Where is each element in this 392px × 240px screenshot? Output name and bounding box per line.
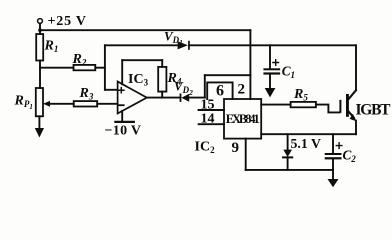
- wire R5 to gate: [316, 105, 340, 113]
- capacitor C1: [263, 68, 280, 70]
- potentiometer RP1: [36, 88, 43, 116]
- pin 14 lead: [199, 123, 224, 125]
- wire VD1 rail right: [190, 44, 356, 46]
- resistor R2: [74, 65, 96, 70]
- wire left rail to R1: [39, 30, 41, 34]
- svg-text:IGBT: IGBT: [356, 101, 392, 118]
- wire branch to R2: [40, 67, 74, 69]
- svg-text:+25 V: +25 V: [48, 14, 87, 29]
- wire C2 to rail: [332, 159, 334, 170]
- svg-text:R3: R3: [79, 86, 94, 102]
- op-amp IC3: [118, 82, 147, 114]
- wire R4 top stub: [161, 60, 163, 67]
- wire R2 to +node: [95, 67, 105, 69]
- capacitor C2 stub: [332, 134, 334, 153]
- wire pin2 vertical: [249, 30, 251, 99]
- svg-text:2: 2: [238, 82, 246, 98]
- svg-text:R2: R2: [72, 52, 87, 68]
- wire wiper to R3: [48, 103, 74, 105]
- wire terminal to rail: [39, 23, 41, 30]
- wire op-amp output: [147, 97, 180, 99]
- wiper arrow of RP1: [43, 101, 50, 107]
- IGBT collector: [348, 90, 356, 100]
- wire R4 bottom stub: [161, 92, 163, 98]
- svg-text:EXB841: EXB841: [226, 112, 260, 126]
- ground: [35, 128, 44, 138]
- wire R1 to RP1: [39, 61, 41, 89]
- wire VD1 rail left: [105, 44, 178, 46]
- wire chip to R5: [261, 104, 290, 106]
- node junction dot: [38, 28, 42, 32]
- svg-text:14: 14: [201, 112, 215, 127]
- resistor R5: [291, 102, 316, 107]
- svg-text:15: 15: [201, 97, 215, 112]
- zener stub: [287, 134, 289, 149]
- ground: [265, 88, 276, 97]
- C1 plus sign: [273, 60, 279, 66]
- capacitor C2: [325, 153, 342, 155]
- IGBT gate bar: [339, 100, 341, 113]
- svg-text:5.1 V: 5.1 V: [291, 136, 321, 151]
- IGBT body bar: [346, 94, 349, 117]
- wire to pin2: [205, 74, 251, 76]
- C2 plus sign: [336, 143, 342, 149]
- svg-text:IC2: IC2: [195, 140, 216, 156]
- svg-text:C2: C2: [343, 148, 357, 165]
- capacitor C1 stub: [269, 45, 271, 68]
- IGBT emitter: [349, 112, 354, 118]
- wire emitter rail to chip: [261, 133, 356, 135]
- resistor R4: [158, 67, 166, 92]
- svg-text:6: 6: [216, 83, 224, 100]
- +25V terminal: [38, 19, 43, 24]
- diode VD1: [178, 41, 188, 49]
- svg-text:RP1: RP1: [14, 93, 33, 111]
- minus input marker: [119, 104, 124, 106]
- ground stub: [332, 170, 334, 179]
- resistor R3: [74, 101, 98, 106]
- wire C1 to ground: [269, 75, 271, 88]
- pin 6 tab box: [207, 82, 232, 99]
- wire into + input: [105, 89, 118, 91]
- svg-text:VD2: VD2: [174, 79, 193, 98]
- IC EXB841 body: [224, 99, 261, 139]
- svg-text:R1: R1: [44, 39, 59, 55]
- wire negative supply stub: [121, 111, 123, 122]
- svg-text:9: 9: [232, 140, 240, 156]
- plus input marker: [119, 88, 124, 93]
- wire R3 to - input: [97, 103, 117, 105]
- wire bottom rail: [246, 169, 333, 171]
- resistor R1: [36, 34, 43, 61]
- negative supply bar: [115, 121, 133, 123]
- wire VD2 to corner: [189, 97, 205, 99]
- wire top +25V rail: [40, 29, 250, 31]
- wire RP1 to ground: [38, 116, 40, 128]
- svg-text:−10 V: −10 V: [105, 124, 142, 139]
- wire R4 feedback top: [122, 59, 162, 61]
- pin 9 lead: [245, 139, 247, 170]
- diode VD2: [180, 94, 182, 102]
- svg-text:IC3: IC3: [128, 72, 149, 88]
- wire + input vertical node: [104, 45, 106, 90]
- ground: [328, 179, 339, 187]
- wire corner up: [204, 75, 206, 97]
- wire collector drop: [355, 45, 357, 90]
- svg-text:R5: R5: [293, 87, 308, 103]
- wire emitter down: [355, 121, 357, 135]
- zener diode 5.1V: [283, 150, 292, 157]
- pin 15 lead: [199, 109, 224, 111]
- svg-text:C1: C1: [282, 64, 295, 81]
